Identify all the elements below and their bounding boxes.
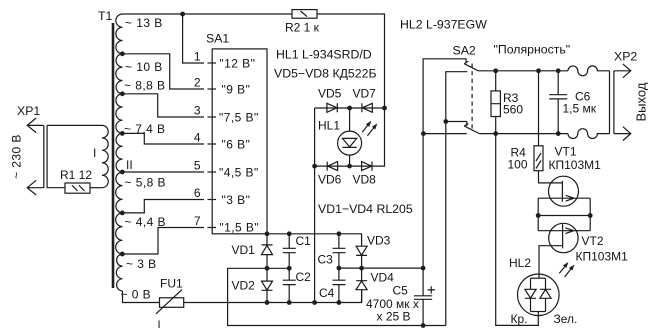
node top rail R3	[493, 68, 498, 73]
svg-text:6: 6	[194, 186, 201, 200]
wire DC plus mid-right rail	[339, 267, 423, 269]
node bridge bottom-left	[312, 164, 317, 169]
svg-text:VD2: VD2	[232, 279, 256, 293]
svg-text:VD8: VD8	[353, 173, 377, 187]
svg-text:II: II	[126, 158, 133, 172]
svg-text:VD4: VD4	[371, 271, 395, 285]
node mid-left C1C2	[287, 266, 292, 271]
wire DC plus to SA2 lower contact	[423, 133, 466, 135]
wire AC1 rail	[267, 234, 362, 247]
transistor VT1	[549, 176, 579, 206]
node 10V tap	[120, 51, 125, 56]
svg-text:1: 1	[194, 49, 201, 63]
svg-text:"6 В": "6 В"	[222, 137, 251, 151]
wire branch to SA1 contact 1	[183, 14, 204, 63]
diode VD7	[362, 103, 372, 112]
svg-text:HL1 L-934SRD/D: HL1 L-934SRD/D	[276, 48, 372, 62]
VT1 channel	[561, 181, 563, 202]
wire HL1 bridge to AC2 rail	[314, 166, 316, 302]
resistor R4	[534, 146, 543, 171]
wire R4 from top rail	[538, 71, 540, 146]
fuse FU1	[160, 298, 184, 308]
SA1 contact tick 1	[208, 62, 217, 64]
capacitor C5	[414, 268, 432, 325]
HL2 top node	[531, 277, 546, 279]
node mid-right C5	[421, 266, 426, 271]
svg-text:C3: C3	[318, 253, 334, 267]
svg-text:C4: C4	[319, 286, 335, 300]
wire 4,4V tap to SA1 contact 6	[123, 200, 205, 213]
SA1 contact tick 7	[208, 227, 217, 229]
node 13V branch	[180, 12, 185, 17]
transformer T1 core	[112, 23, 115, 288]
node bridge bottom-mid	[347, 164, 352, 169]
svg-text:"4,5 В": "4,5 В"	[219, 165, 259, 179]
node mid-left VD1VD2	[265, 266, 270, 271]
svg-text:HL2 L-937EGW: HL2 L-937EGW	[400, 18, 487, 32]
svg-text:КП103М1: КП103М1	[549, 158, 602, 172]
svg-text:VD1−VD4 RL205: VD1−VD4 RL205	[318, 202, 413, 216]
SA2 mechanical link (dashed)	[471, 64, 473, 130]
svg-text:"12 В": "12 В"	[219, 56, 255, 70]
node 8,8V tap	[120, 91, 125, 96]
node bridge top-right	[382, 106, 387, 111]
svg-text:100: 100	[508, 158, 528, 172]
transistor VT2	[549, 223, 578, 252]
svg-text:R2 1 к: R2 1 к	[285, 21, 320, 35]
svg-text:1,5 мк: 1,5 мк	[563, 102, 597, 116]
svg-text:HL1: HL1	[318, 119, 340, 133]
wire HL1 bridge left side	[314, 108, 316, 166]
wire XP1 top to primary	[47, 124, 102, 126]
SA1 contact tick 4	[208, 143, 217, 145]
wire DC minus to SA2 lower contact	[446, 122, 467, 127]
node AC2-VD2	[265, 300, 270, 305]
svg-text:560: 560	[503, 103, 523, 117]
wire AC2 rail from FU1	[184, 290, 362, 303]
SA1 switch box	[212, 49, 267, 234]
wire 3V tap to SA1 contact 7	[123, 228, 205, 255]
node top rail R4	[536, 68, 541, 73]
LED HL1 symbol	[343, 138, 357, 147]
resistor R1	[65, 183, 90, 193]
svg-text:SA1: SA1	[206, 32, 229, 46]
svg-text:VD3: VD3	[367, 234, 391, 248]
wire HL1 bridge bottom rail	[315, 108, 385, 166]
svg-text:~ 13 В: ~ 13 В	[125, 16, 163, 30]
capacitor C2	[283, 268, 296, 302]
VT1 source-drain line	[538, 195, 590, 201]
wire HL1 bridge top rail	[315, 107, 385, 109]
wire 13V tap to R2 and SA1	[123, 13, 293, 15]
transformer secondary winding II	[116, 14, 123, 291]
diode VD8	[362, 162, 372, 171]
XP1 plug arrow top	[27, 118, 43, 133]
diode VD1	[262, 234, 273, 268]
svg-text:7: 7	[194, 214, 201, 228]
node AC1-C3	[337, 231, 342, 236]
svg-text:SA2: SA2	[453, 44, 476, 58]
node AC1-C1	[287, 231, 292, 236]
svg-text:5: 5	[194, 158, 201, 172]
wire VT rail	[538, 215, 590, 217]
wire bridge mid-top to LED	[349, 108, 351, 131]
wire R2 to HL1 bridge	[317, 14, 385, 108]
svg-text:VD6: VD6	[318, 173, 342, 187]
wire DC minus mid-left rail	[228, 268, 446, 325]
svg-text:4: 4	[194, 130, 201, 144]
SA2 upper arm	[464, 61, 478, 71]
node mid-right VD3VD4	[359, 266, 364, 271]
node top rail C6	[556, 68, 561, 73]
XP2 arrow top	[614, 64, 631, 78]
svg-text:C5: C5	[393, 284, 409, 298]
svg-text:~ 0 В: ~ 0 В	[121, 288, 152, 302]
svg-text:~ 5,8 В: ~ 5,8 В	[125, 176, 167, 190]
C5 plus sign	[428, 286, 436, 293]
XP1 connector double bars	[44, 125, 47, 188]
node 3V tap	[120, 252, 125, 257]
node AC1-VD1	[265, 231, 270, 236]
svg-text:"1,5 В": "1,5 В"	[219, 220, 259, 234]
svg-text:T1: T1	[98, 9, 113, 23]
svg-text:Зел.: Зел.	[554, 312, 578, 326]
HL2 left diode (red)	[525, 278, 536, 311]
svg-text:VT1: VT1	[555, 145, 577, 159]
svg-text:XP1: XP1	[17, 104, 40, 118]
svg-text:Выход: Выход	[634, 82, 649, 121]
SA1 contact tick 3	[208, 116, 217, 118]
SA2 lower arm	[464, 124, 479, 134]
wire VT1 left to rail	[537, 198, 539, 215]
node AC2-HL1	[312, 300, 317, 305]
svg-text:I: I	[158, 319, 161, 331]
node VT rail left	[536, 213, 541, 218]
wire 5,8V tap to SA1 contact 5	[123, 171, 205, 173]
wire 0V tap to FU1	[123, 291, 160, 303]
svg-text:C2: C2	[296, 270, 312, 284]
wire 8,8V tap to SA1 contact 3	[123, 94, 205, 117]
wire HL2 bottom return	[496, 134, 539, 326]
svg-text:R1 12: R1 12	[60, 168, 92, 182]
SA1 contact tick 6	[208, 199, 217, 201]
wire output top rail	[478, 70, 568, 72]
node 7,4V tap	[120, 131, 125, 136]
node AC2-C2	[287, 300, 292, 305]
svg-text:х 25 В: х 25 В	[377, 310, 411, 324]
wire DC plus up to SA2	[423, 59, 466, 268]
svg-text:~ 230 В: ~ 230 В	[10, 134, 24, 179]
wire output bottom rail	[479, 133, 568, 135]
VT2 channel	[562, 224, 564, 248]
node bridge top-mid	[347, 106, 352, 111]
svg-text:C1: C1	[296, 234, 312, 248]
capacitor C1	[283, 234, 296, 268]
diode VD4	[356, 268, 367, 302]
node DC plus lower branch	[421, 131, 426, 136]
wire output bottom wave	[568, 129, 610, 139]
svg-text:VD7: VD7	[353, 87, 377, 101]
svg-text:2: 2	[194, 75, 201, 89]
SA1 contact tick 5	[208, 171, 217, 173]
svg-text:VD5−VD8 КД522Б: VD5−VD8 КД522Б	[274, 67, 377, 81]
svg-text:"3 В": "3 В"	[222, 193, 251, 207]
capacitor C3	[333, 234, 346, 268]
LED HL2 circle	[518, 274, 560, 316]
VT2 source-drain line	[538, 228, 590, 234]
svg-text:VD5: VD5	[318, 87, 342, 101]
HL2 bottom node	[531, 311, 546, 313]
node mid-right C3C4	[337, 266, 342, 271]
svg-text:Кр.: Кр.	[511, 312, 528, 326]
diode VD6	[327, 162, 337, 171]
svg-text:КП103М1: КП103М1	[576, 250, 629, 264]
svg-text:FU1: FU1	[160, 277, 183, 291]
svg-text:VT2: VT2	[582, 234, 604, 248]
wire DC minus up to SA2	[446, 72, 468, 326]
svg-text:XP2: XP2	[614, 50, 637, 64]
wire 7,4V tap to SA1 contact 4	[123, 133, 205, 144]
svg-text:~ 3 В: ~ 3 В	[126, 257, 157, 271]
diode VD2	[262, 268, 273, 302]
svg-text:3: 3	[194, 103, 201, 117]
wire XP1 bottom to R1	[47, 187, 65, 189]
node 5,8V tap	[120, 170, 125, 175]
HL2 right diode (green)	[540, 278, 551, 311]
LED HL1 circle	[338, 131, 362, 155]
wire VT1 right to rail	[589, 198, 591, 215]
wire output top wave	[568, 66, 610, 76]
node 4,4V tap	[120, 211, 125, 216]
SA1 contact tick 2	[208, 88, 217, 90]
wire 10V tap to SA1 contact 2	[123, 54, 205, 89]
svg-text:HL2: HL2	[509, 256, 531, 270]
HL1 emission arrows	[362, 125, 374, 136]
svg-text:I: I	[93, 146, 96, 160]
resistor R2	[292, 10, 317, 19]
wire LED to bridge mid-bottom	[349, 155, 351, 166]
wire R1 to primary	[90, 187, 102, 189]
HL2 emission arrows	[559, 266, 571, 277]
node DC minus C5	[421, 323, 426, 328]
connector XP2 double bars	[610, 71, 614, 134]
node DC minus branch	[443, 119, 448, 124]
node bottom rail R3	[493, 131, 498, 136]
VT2 gate wire to HL2	[539, 246, 563, 279]
svg-text:~ 10 В: ~ 10 В	[125, 60, 163, 74]
XP2 arrow bottom	[614, 127, 631, 141]
resistor R3	[491, 71, 500, 134]
svg-text:"7,5 В": "7,5 В"	[219, 110, 259, 124]
wire rail to VT2 right	[589, 216, 591, 231]
wire rail to VT2 left	[537, 216, 539, 231]
node VT rail right	[588, 213, 593, 218]
XP1 plug arrow bottom	[27, 180, 43, 195]
svg-text:"Полярность": "Полярность"	[494, 43, 571, 57]
capacitor C6	[549, 71, 567, 134]
diode VD5	[327, 103, 337, 112]
capacitor C4	[333, 268, 346, 302]
transformer primary winding I	[102, 125, 108, 187]
wire R4 to VT1 gate	[539, 171, 563, 183]
svg-text:~ 8,8 В: ~ 8,8 В	[124, 79, 166, 93]
svg-text:VD1: VD1	[232, 243, 256, 257]
diode VD3	[356, 246, 367, 268]
svg-text:"9 В": "9 В"	[222, 82, 251, 96]
node AC2-C4	[337, 300, 342, 305]
node bottom rail C6	[556, 131, 561, 136]
